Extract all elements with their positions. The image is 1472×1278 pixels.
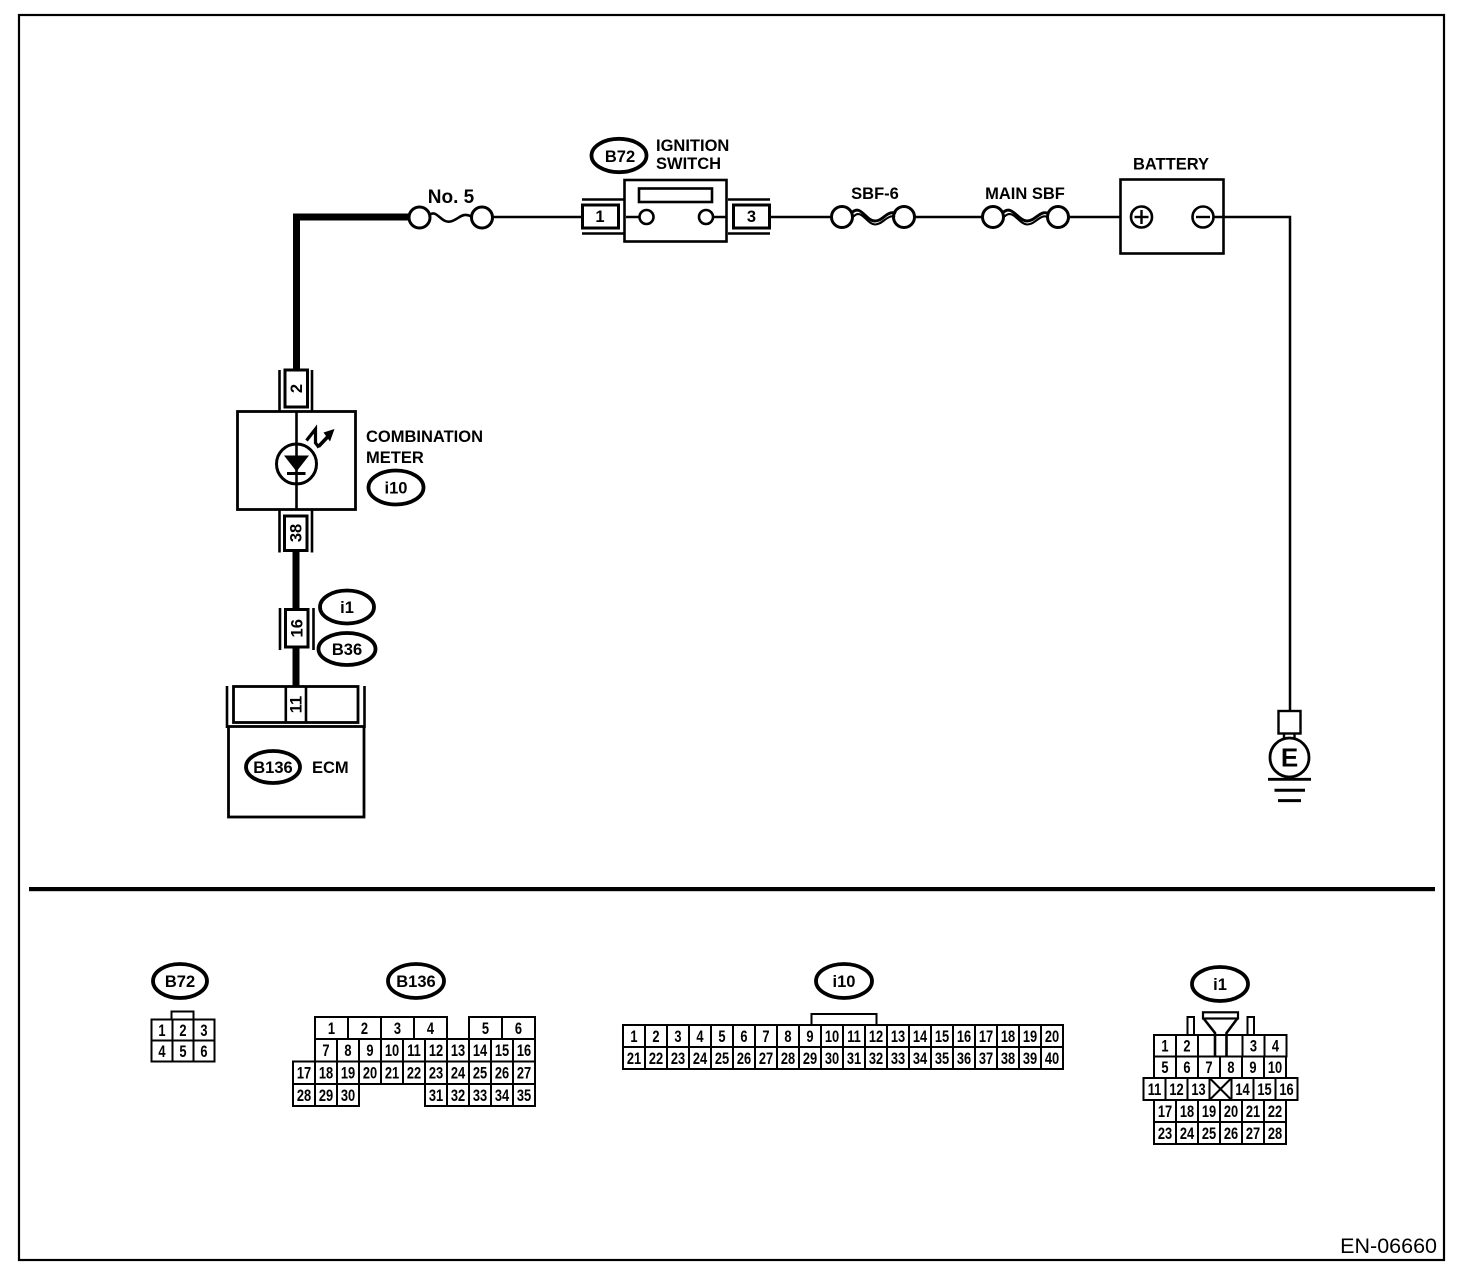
wire (thick) pin 38 to pin 16 <box>293 551 300 609</box>
svg-text:28: 28 <box>1268 1126 1282 1144</box>
fuse No. 5 <box>409 187 493 228</box>
svg-text:17: 17 <box>979 1029 993 1047</box>
svg-text:2: 2 <box>288 384 306 393</box>
svg-text:16: 16 <box>289 619 307 637</box>
svg-text:5: 5 <box>1161 1060 1168 1078</box>
svg-text:13: 13 <box>451 1043 465 1061</box>
svg-text:32: 32 <box>869 1051 883 1069</box>
wire pin3 to SBF-6 <box>770 216 832 219</box>
wire SBF-6 to MAIN SBF <box>915 216 983 219</box>
svg-text:25: 25 <box>473 1065 487 1083</box>
figure number EN-06660 <box>1340 1234 1437 1258</box>
svg-text:4: 4 <box>427 1021 435 1039</box>
svg-text:3: 3 <box>674 1029 681 1047</box>
connector pin 16 (harness i1/B36) <box>280 608 314 650</box>
svg-text:B72: B72 <box>605 148 635 166</box>
connector B72 pinout <box>152 964 215 1062</box>
connector i1 label ellipse (main section) <box>320 591 374 624</box>
svg-text:1: 1 <box>328 1021 335 1039</box>
svg-text:B72: B72 <box>165 973 195 991</box>
svg-text:No. 5: No. 5 <box>428 187 475 208</box>
svg-text:34: 34 <box>495 1088 510 1106</box>
ignition switch B72 <box>625 180 727 242</box>
svg-text:2: 2 <box>1183 1038 1190 1056</box>
wire from fuse No.5 to ignition switch pin 1 <box>493 216 582 219</box>
svg-text:11: 11 <box>847 1029 861 1047</box>
svg-text:6: 6 <box>515 1021 522 1039</box>
svg-text:27: 27 <box>759 1051 773 1069</box>
svg-text:3: 3 <box>747 208 756 226</box>
svg-text:2: 2 <box>652 1029 659 1047</box>
battery <box>1121 156 1225 254</box>
svg-text:31: 31 <box>429 1088 443 1106</box>
svg-text:33: 33 <box>473 1088 487 1106</box>
connector B72 label ellipse <box>592 139 647 172</box>
svg-text:30: 30 <box>341 1088 355 1106</box>
wire MAIN SBF to battery <box>1069 216 1132 219</box>
svg-text:EN-06660: EN-06660 <box>1340 1234 1437 1258</box>
svg-text:18: 18 <box>1001 1029 1015 1047</box>
svg-text:16: 16 <box>957 1029 971 1047</box>
svg-text:19: 19 <box>1202 1104 1216 1122</box>
svg-text:i1: i1 <box>1213 976 1227 994</box>
svg-text:24: 24 <box>1180 1126 1195 1144</box>
svg-text:COMBINATION: COMBINATION <box>366 428 483 446</box>
svg-text:9: 9 <box>806 1029 813 1047</box>
svg-text:30: 30 <box>825 1051 839 1069</box>
svg-text:B136: B136 <box>396 973 435 991</box>
svg-text:2: 2 <box>361 1021 368 1039</box>
svg-text:23: 23 <box>671 1051 685 1069</box>
svg-text:19: 19 <box>341 1065 355 1083</box>
svg-text:5: 5 <box>718 1029 725 1047</box>
svg-text:i10: i10 <box>385 479 408 497</box>
svg-text:6: 6 <box>740 1029 747 1047</box>
svg-text:8: 8 <box>344 1043 351 1061</box>
svg-text:22: 22 <box>407 1065 421 1083</box>
svg-text:17: 17 <box>1158 1104 1172 1122</box>
svg-text:6: 6 <box>200 1044 207 1062</box>
svg-text:20: 20 <box>1224 1104 1238 1122</box>
svg-text:35: 35 <box>935 1051 949 1069</box>
svg-text:39: 39 <box>1023 1051 1037 1069</box>
svg-text:29: 29 <box>803 1051 817 1069</box>
svg-text:19: 19 <box>1023 1029 1037 1047</box>
svg-text:27: 27 <box>517 1065 531 1083</box>
wire (thick) pin 16 to ECM pin 11 <box>293 648 300 688</box>
svg-text:4: 4 <box>1272 1038 1280 1056</box>
svg-text:31: 31 <box>847 1051 861 1069</box>
ECM connector row with pin 11 <box>227 686 365 728</box>
svg-text:20: 20 <box>1045 1029 1059 1047</box>
connector i10 label ellipse <box>369 471 424 505</box>
svg-text:1: 1 <box>630 1029 637 1047</box>
svg-text:33: 33 <box>891 1051 905 1069</box>
LED (illumination lamp) in combination meter <box>277 444 317 484</box>
svg-text:ECM: ECM <box>312 759 349 777</box>
svg-text:14: 14 <box>913 1029 928 1047</box>
connector i1 pinout <box>1144 967 1298 1144</box>
svg-text:34: 34 <box>913 1051 928 1069</box>
svg-text:16: 16 <box>1279 1082 1293 1100</box>
svg-text:15: 15 <box>1257 1082 1271 1100</box>
svg-text:26: 26 <box>495 1065 509 1083</box>
connector B136 pinout <box>293 964 535 1106</box>
svg-text:26: 26 <box>737 1051 751 1069</box>
svg-text:17: 17 <box>297 1065 311 1083</box>
svg-text:14: 14 <box>473 1043 488 1061</box>
svg-text:29: 29 <box>319 1088 333 1106</box>
connector pin 3 (ignition switch) <box>728 200 770 234</box>
svg-text:25: 25 <box>715 1051 729 1069</box>
svg-text:B136: B136 <box>253 759 292 777</box>
svg-text:10: 10 <box>1268 1060 1282 1078</box>
svg-text:28: 28 <box>781 1051 795 1069</box>
svg-text:28: 28 <box>297 1088 311 1106</box>
svg-text:3: 3 <box>200 1023 207 1041</box>
svg-text:21: 21 <box>385 1065 399 1083</box>
svg-text:24: 24 <box>451 1065 466 1083</box>
svg-text:4: 4 <box>696 1029 704 1047</box>
svg-text:2: 2 <box>179 1023 186 1041</box>
svg-text:35: 35 <box>517 1088 531 1106</box>
svg-text:13: 13 <box>1191 1082 1205 1100</box>
divider line <box>29 887 1435 891</box>
connector B36 label ellipse <box>319 633 376 665</box>
svg-text:22: 22 <box>1268 1104 1282 1122</box>
svg-text:18: 18 <box>319 1065 333 1083</box>
svg-text:8: 8 <box>1227 1060 1234 1078</box>
svg-text:i10: i10 <box>833 973 856 991</box>
svg-text:38: 38 <box>1001 1051 1015 1069</box>
svg-text:7: 7 <box>762 1029 769 1047</box>
svg-text:25: 25 <box>1202 1126 1216 1144</box>
svg-text:24: 24 <box>693 1051 708 1069</box>
svg-text:15: 15 <box>935 1029 949 1047</box>
svg-text:B36: B36 <box>332 641 362 659</box>
svg-text:22: 22 <box>649 1051 663 1069</box>
svg-text:SWITCH: SWITCH <box>656 155 721 173</box>
svg-text:3: 3 <box>1250 1038 1257 1056</box>
svg-text:20: 20 <box>363 1065 377 1083</box>
svg-text:40: 40 <box>1045 1051 1059 1069</box>
svg-text:12: 12 <box>869 1029 883 1047</box>
ground symbol <box>1268 779 1311 800</box>
ground E terminal <box>1270 733 1309 777</box>
svg-text:13: 13 <box>891 1029 905 1047</box>
combination meter box <box>238 412 356 510</box>
connector i10 pinout <box>623 964 1063 1069</box>
connector pin 38 (combination meter) <box>280 511 313 553</box>
svg-text:36: 36 <box>957 1051 971 1069</box>
label IGNITION SWITCH <box>656 137 729 173</box>
svg-text:7: 7 <box>1205 1060 1212 1078</box>
svg-text:1: 1 <box>158 1023 165 1041</box>
ECM box <box>229 727 365 818</box>
svg-text:METER: METER <box>366 449 424 467</box>
svg-text:27: 27 <box>1246 1126 1260 1144</box>
svg-text:5: 5 <box>179 1044 186 1062</box>
svg-text:SBF-6: SBF-6 <box>851 185 899 203</box>
svg-text:11: 11 <box>407 1043 421 1061</box>
svg-text:4: 4 <box>158 1044 166 1062</box>
svg-text:5: 5 <box>482 1021 489 1039</box>
ground connector square <box>1279 711 1301 734</box>
svg-text:21: 21 <box>627 1051 641 1069</box>
wire (thick) from fuse No.5 to combination meter pin 2 <box>297 217 410 370</box>
svg-text:9: 9 <box>366 1043 373 1061</box>
svg-text:9: 9 <box>1249 1060 1256 1078</box>
svg-text:IGNITION: IGNITION <box>656 137 729 155</box>
svg-text:10: 10 <box>825 1029 839 1047</box>
svg-text:15: 15 <box>495 1043 509 1061</box>
svg-text:1: 1 <box>1161 1038 1168 1056</box>
svg-text:i1: i1 <box>340 599 354 617</box>
svg-text:26: 26 <box>1224 1126 1238 1144</box>
connector pin 1 (ignition switch) <box>582 200 624 234</box>
svg-text:11: 11 <box>287 696 305 713</box>
svg-text:37: 37 <box>979 1051 993 1069</box>
connector B136 label ellipse (in ECM) <box>246 751 300 783</box>
svg-text:12: 12 <box>429 1043 443 1061</box>
svg-text:7: 7 <box>322 1043 329 1061</box>
label COMBINATION METER <box>366 428 483 467</box>
svg-text:38: 38 <box>288 524 306 542</box>
svg-text:18: 18 <box>1180 1104 1194 1122</box>
connector pin 2 (combination meter) <box>280 370 313 412</box>
svg-text:3: 3 <box>394 1021 401 1039</box>
wire battery to ground E <box>1224 217 1290 711</box>
svg-text:21: 21 <box>1246 1104 1260 1122</box>
svg-text:E: E <box>1281 743 1298 773</box>
svg-text:16: 16 <box>517 1043 531 1061</box>
svg-text:10: 10 <box>385 1043 399 1061</box>
svg-text:6: 6 <box>1183 1060 1190 1078</box>
LED light arrows <box>307 429 335 448</box>
fuse SBF-6 <box>832 185 915 228</box>
svg-text:23: 23 <box>1158 1126 1172 1144</box>
svg-text:23: 23 <box>429 1065 443 1083</box>
svg-text:8: 8 <box>784 1029 791 1047</box>
svg-text:1: 1 <box>595 208 604 226</box>
svg-text:14: 14 <box>1235 1082 1250 1100</box>
svg-text:MAIN SBF: MAIN SBF <box>985 185 1065 203</box>
fuse MAIN SBF <box>983 185 1069 228</box>
svg-text:11: 11 <box>1148 1082 1162 1100</box>
svg-text:12: 12 <box>1169 1082 1183 1100</box>
svg-text:BATTERY: BATTERY <box>1133 156 1209 174</box>
svg-text:32: 32 <box>451 1088 465 1106</box>
